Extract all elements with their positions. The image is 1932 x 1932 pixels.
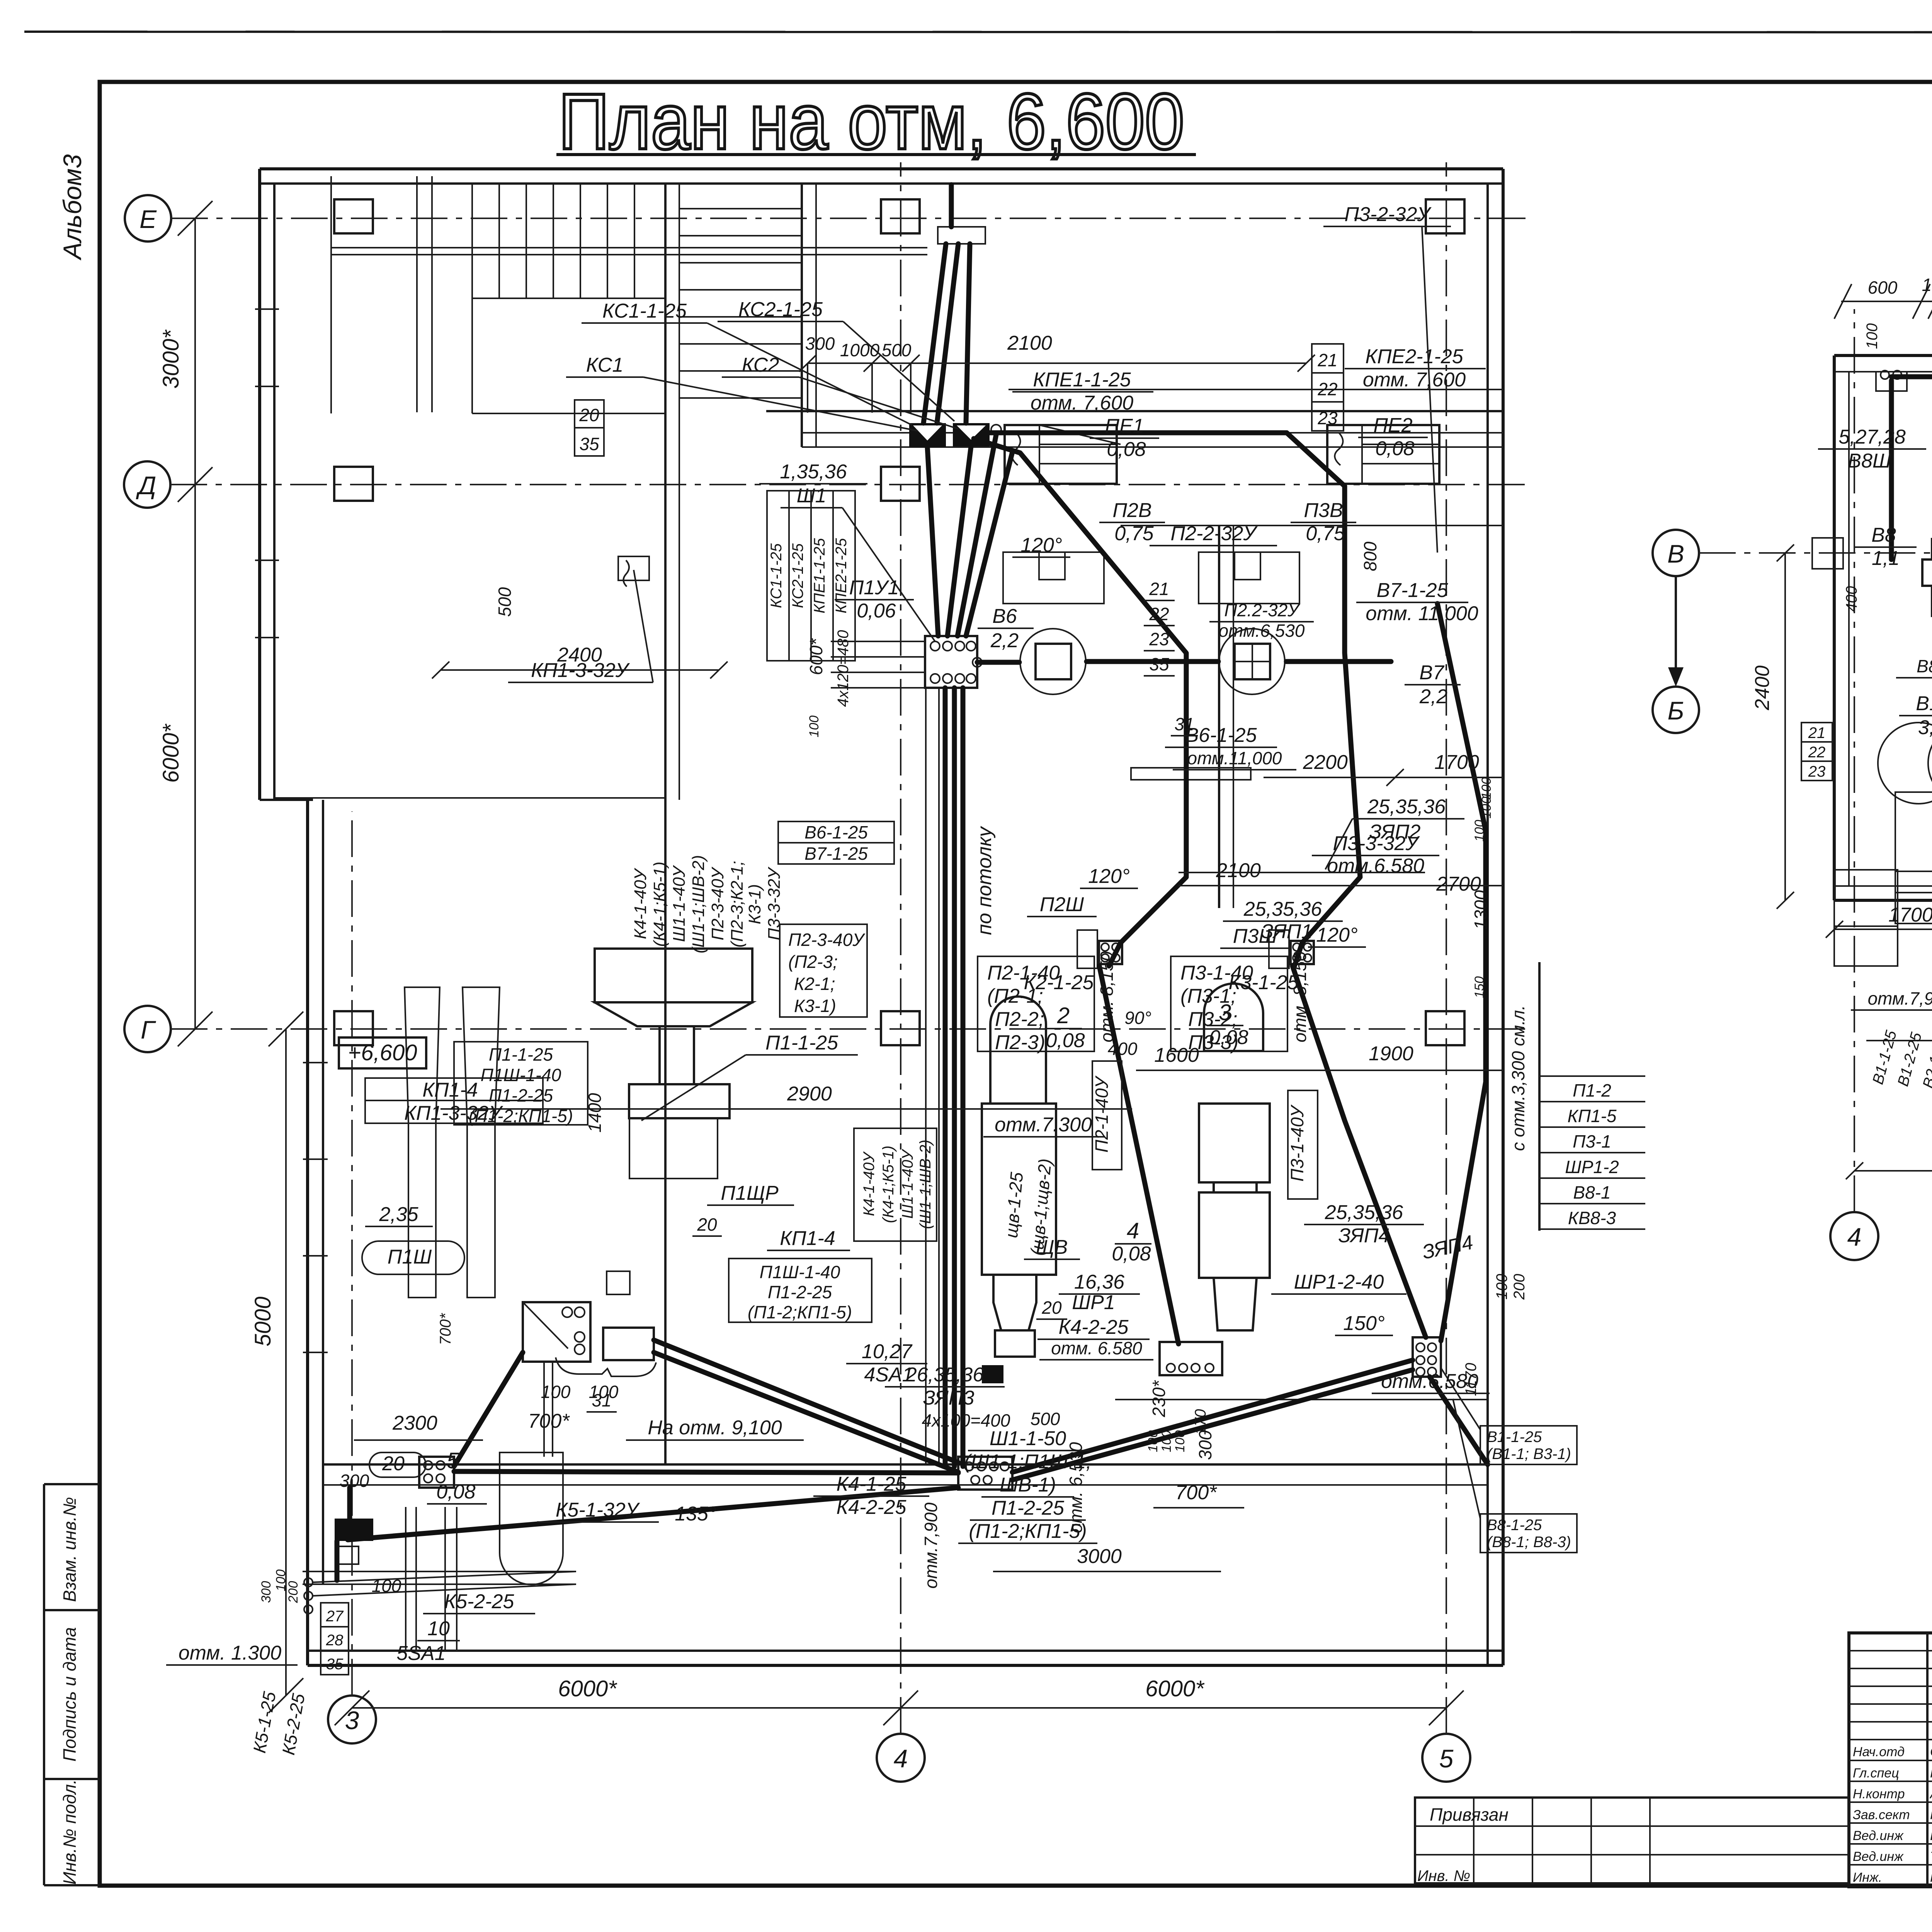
pump В1 circles bbox=[1878, 723, 1932, 804]
svg-text:Нач.отд: Нач.отд bbox=[1853, 1745, 1905, 1759]
stair treads bbox=[498, 184, 500, 298]
svg-text:В6-1-25: В6-1-25 bbox=[1185, 724, 1257, 747]
title block bbox=[1849, 1633, 1932, 1925]
svg-text:100: 100 bbox=[1159, 1430, 1174, 1452]
svg-text:П3-1-40У: П3-1-40У bbox=[1287, 1104, 1307, 1182]
dims top bbox=[1841, 301, 1932, 302]
svg-text:КП1-4: КП1-4 bbox=[780, 1227, 835, 1250]
fan В6 bbox=[1020, 629, 1086, 694]
bottom wall bbox=[308, 1664, 1503, 1667]
svg-text:Альбом3: Альбом3 bbox=[58, 154, 87, 261]
svg-text:отм.6.580: отм.6.580 bbox=[1327, 855, 1424, 877]
junction ШР1 bbox=[1160, 1342, 1222, 1375]
svg-text:Е: Е bbox=[139, 205, 157, 233]
ticks left of box bbox=[831, 641, 925, 642]
svg-text:500: 500 bbox=[1031, 1409, 1060, 1429]
svg-text:6000*: 6000* bbox=[1145, 1676, 1205, 1701]
svg-text:П2-1-40У: П2-1-40У bbox=[1092, 1075, 1112, 1153]
svg-text:28: 28 bbox=[326, 1632, 344, 1649]
svg-text:Инв.№ подл.: Инв.№ подл. bbox=[60, 1779, 80, 1885]
title block outline bbox=[1849, 1633, 1932, 1887]
rotated П3-1-40У bbox=[1288, 1090, 1318, 1199]
svg-text:П2Ш: П2Ш bbox=[1040, 893, 1084, 916]
svg-text:22: 22 bbox=[1317, 379, 1337, 399]
svg-text:с отм.3,300 см.л.: с отм.3,300 см.л. bbox=[1508, 1005, 1528, 1151]
left wall upper bbox=[258, 169, 261, 800]
svg-text:120°: 120° bbox=[1316, 924, 1358, 946]
damper circle bbox=[991, 425, 1001, 435]
svg-text:К2-1;: К2-1; bbox=[794, 974, 835, 994]
svg-text:П3-3-32У: П3-3-32У bbox=[765, 867, 784, 940]
svg-text:2,35: 2,35 bbox=[379, 1203, 418, 1226]
bottom dim 6000* line bbox=[352, 1707, 1446, 1709]
svg-text:В6: В6 bbox=[992, 605, 1017, 628]
junction ЗЯП3 bbox=[958, 1457, 1012, 1490]
svg-text:2,2: 2,2 bbox=[990, 629, 1019, 652]
svg-text:П1Ш-1-40: П1Ш-1-40 bbox=[760, 1262, 840, 1282]
cabinet КП1-4 bbox=[603, 1328, 654, 1360]
svg-text:отм.7,900: отм.7,900 bbox=[1868, 988, 1932, 1009]
svg-text:ПЕ2: ПЕ2 bbox=[1373, 414, 1412, 437]
svg-text:отм. 7,600: отм. 7,600 bbox=[1031, 392, 1133, 414]
column stub grid5-E bbox=[1426, 199, 1464, 233]
svg-text:(В8-1; В8-3): (В8-1; В8-3) bbox=[1487, 1534, 1571, 1551]
svg-text:Ш1-1-50: Ш1-1-50 bbox=[990, 1427, 1066, 1450]
svg-text:10: 10 bbox=[427, 1617, 450, 1640]
svg-text:П2-2-32У: П2-2-32У bbox=[1170, 522, 1258, 545]
svg-text:0,08: 0,08 bbox=[1046, 1029, 1085, 1052]
left wall step bbox=[260, 799, 313, 801]
svg-text:П2-3-40У: П2-3-40У bbox=[788, 930, 866, 950]
svg-text:700*: 700* bbox=[528, 1410, 570, 1432]
cable П3 machine drop bbox=[1293, 966, 1426, 1337]
svg-text:ЗЯП3: ЗЯП3 bbox=[923, 1387, 975, 1409]
attachment table bbox=[1415, 1798, 1849, 1884]
cable П3-2 right side run bbox=[1437, 604, 1486, 1341]
svg-text:1900: 1900 bbox=[1369, 1043, 1413, 1065]
block ПЕ2 bbox=[1327, 425, 1439, 484]
junction П2Ш bbox=[1077, 930, 1097, 968]
drawing title bbox=[556, 77, 1196, 166]
machine П2 body bbox=[982, 1104, 1056, 1275]
svg-text:4: 4 bbox=[894, 1744, 908, 1773]
svg-text:100: 100 bbox=[807, 716, 821, 738]
fan В7 bbox=[1219, 629, 1285, 694]
svg-text:200: 200 bbox=[286, 1581, 301, 1604]
svg-text:16,36: 16,36 bbox=[1074, 1271, 1124, 1293]
svg-text:100: 100 bbox=[1864, 323, 1881, 349]
cable drop from top wall bbox=[923, 244, 946, 423]
right wall bbox=[1502, 169, 1505, 1665]
svg-text:ЩВ: ЩВ bbox=[1036, 1236, 1068, 1259]
svg-text:КПЕ2-1-25: КПЕ2-1-25 bbox=[833, 538, 850, 614]
svg-text:1,1: 1,1 bbox=[1872, 547, 1900, 570]
dim 6000* vertical bbox=[194, 485, 196, 1029]
svg-text:отм.7.300: отм.7.300 bbox=[995, 1114, 1092, 1136]
svg-text:П2В: П2В bbox=[1112, 499, 1151, 522]
svg-text:21: 21 bbox=[1317, 350, 1337, 370]
box 21 22 23 top bbox=[1312, 344, 1344, 431]
cable riser fan to box bbox=[927, 447, 938, 636]
junction В8Ш top bbox=[1876, 372, 1907, 391]
svg-text:2: 2 bbox=[1057, 1003, 1070, 1028]
room П2В bbox=[1003, 552, 1104, 604]
axis line 3 bbox=[351, 811, 353, 1696]
svg-text:ЗЯП4: ЗЯП4 bbox=[1338, 1225, 1390, 1247]
axis В-Б arrow bbox=[1675, 576, 1677, 675]
box КС1-1-25 stack rotated bbox=[767, 491, 855, 661]
svg-text:(П2-3;: (П2-3; bbox=[788, 952, 838, 972]
oval 20-5 bbox=[369, 1452, 426, 1477]
svg-text:150: 150 bbox=[1472, 976, 1487, 998]
drop lines to corridor bbox=[543, 1362, 545, 1457]
svg-text:Толмачева: Толмачева bbox=[1930, 1849, 1932, 1864]
svg-text:2400: 2400 bbox=[1751, 665, 1774, 711]
svg-text:ШР1: ШР1 bbox=[1072, 1291, 1115, 1314]
svg-text:(П1-2;КП1-5): (П1-2;КП1-5) bbox=[469, 1106, 573, 1126]
svg-text:ШР1-2-40: ШР1-2-40 bbox=[1294, 1271, 1384, 1293]
svg-text:В8: В8 bbox=[1871, 524, 1896, 546]
svg-text:П1ЩР: П1ЩР bbox=[721, 1182, 779, 1204]
svg-text:135°: 135° bbox=[675, 1503, 716, 1525]
svg-text:отм.11,000: отм.11,000 bbox=[1187, 748, 1282, 768]
svg-text:700*: 700* bbox=[437, 1313, 454, 1345]
svg-text:100: 100 bbox=[1173, 1430, 1187, 1452]
right plan left wall bbox=[1833, 355, 1836, 900]
svg-text:КПЕ1-1-25: КПЕ1-1-25 bbox=[811, 538, 828, 614]
block ПЕ1 bbox=[1005, 425, 1117, 484]
tall shaft П1Ш b bbox=[463, 987, 500, 1298]
svg-text:КП1-4: КП1-4 bbox=[422, 1079, 478, 1101]
svg-text:5000: 5000 bbox=[250, 1296, 276, 1346]
cable В8 riser drop bbox=[1889, 381, 1894, 560]
svg-text:КПЕ2-1-25: КПЕ2-1-25 bbox=[1365, 345, 1463, 368]
svg-text:В: В bbox=[1667, 539, 1684, 568]
wall x857 bbox=[330, 176, 332, 413]
axis line Г bbox=[171, 1028, 1530, 1030]
svg-text:90°: 90° bbox=[1124, 1008, 1151, 1028]
svg-text:5SA1: 5SA1 bbox=[396, 1642, 446, 1665]
svg-text:В6-1-25: В6-1-25 bbox=[804, 822, 868, 842]
machine 5 body bbox=[500, 1452, 563, 1585]
dim 3000* vertical bbox=[194, 218, 196, 485]
svg-text:2,2: 2,2 bbox=[1419, 685, 1447, 708]
svg-text:0,75: 0,75 bbox=[1306, 522, 1345, 545]
box П1ЩР bbox=[607, 1271, 630, 1294]
svg-text:800: 800 bbox=[1360, 541, 1380, 571]
svg-text:4х100=400: 4х100=400 bbox=[922, 1410, 1010, 1430]
svg-text:25,35,36: 25,35,36 bbox=[1325, 1201, 1403, 1224]
junction box П1 bbox=[523, 1302, 590, 1362]
partition right rooms bbox=[1218, 526, 1220, 908]
svg-text:ШР1-2: ШР1-2 bbox=[1565, 1157, 1619, 1177]
svg-text:700*: 700* bbox=[1175, 1481, 1218, 1504]
cable diag П2 route bbox=[974, 439, 1186, 966]
svg-text:100: 100 bbox=[1479, 777, 1494, 799]
svg-text:0,08: 0,08 bbox=[1107, 438, 1146, 461]
svg-text:К4-2-25: К4-2-25 bbox=[837, 1496, 907, 1519]
svg-text:100: 100 bbox=[1479, 797, 1494, 819]
axis line 4 bbox=[900, 162, 901, 1734]
svg-text:Рябишин: Рябишин bbox=[1930, 1766, 1932, 1781]
svg-text:К4-1-40У: К4-1-40У bbox=[861, 1151, 878, 1216]
svg-text:П3В: П3В bbox=[1304, 499, 1343, 522]
svg-text:К5-2-25: К5-2-25 bbox=[444, 1590, 515, 1613]
stair flight 2 treads bbox=[679, 208, 802, 209]
signature table small rows bbox=[1849, 1650, 1932, 1651]
svg-text:КВ8-3: КВ8-3 bbox=[1568, 1208, 1616, 1228]
svg-text:100: 100 bbox=[1493, 1274, 1510, 1300]
svg-text:300: 300 bbox=[805, 333, 835, 354]
svg-text:3: 3 bbox=[345, 1706, 359, 1735]
svg-text:П2.2-32У: П2.2-32У bbox=[1224, 600, 1301, 620]
svg-text:0,06: 0,06 bbox=[857, 600, 896, 622]
svg-text:П1-1-25: П1-1-25 bbox=[765, 1032, 838, 1054]
name rows bbox=[1849, 1760, 1932, 1761]
svg-text:27: 27 bbox=[326, 1608, 344, 1625]
svg-text:35: 35 bbox=[326, 1656, 344, 1673]
axis circle 5 bbox=[1422, 1734, 1470, 1782]
svg-text:ШВ-1): ШВ-1) bbox=[1000, 1474, 1056, 1496]
svg-text:400: 400 bbox=[1843, 586, 1860, 612]
svg-text:КС2: КС2 bbox=[742, 354, 779, 376]
label В1-1-25 box bottom bbox=[1441, 777, 1577, 1553]
svg-text:3000: 3000 bbox=[1077, 1545, 1122, 1568]
label 21 22 23 stack bbox=[1801, 723, 1832, 781]
rotated box К4-1-40У bbox=[854, 1128, 937, 1241]
svg-text:КПЕ1-1-25: КПЕ1-1-25 bbox=[1033, 369, 1131, 391]
device П1У1 bbox=[618, 556, 649, 580]
svg-text:22: 22 bbox=[1808, 744, 1826, 761]
svg-text:120°: 120° bbox=[1088, 865, 1130, 888]
column stub grid5-G bbox=[1426, 1011, 1464, 1045]
svg-text:Г: Г bbox=[141, 1015, 156, 1044]
leader ЗЯП4 to boxes bbox=[1441, 1368, 1480, 1430]
corner stack 27 28 35 bbox=[321, 1603, 349, 1675]
black box near ЗЯП3 bbox=[982, 1365, 1003, 1383]
pump В1 body bbox=[1895, 792, 1932, 893]
svg-text:П2-3): П2-3) bbox=[995, 1031, 1045, 1054]
cable ЗЯП4 exit bbox=[1430, 1377, 1488, 1464]
svg-text:(Ш1-1;ШВ-2): (Ш1-1;ШВ-2) bbox=[689, 855, 708, 954]
svg-text:отм. 8,150: отм. 8,150 bbox=[1097, 951, 1117, 1043]
svg-text:25,35,36: 25,35,36 bbox=[1243, 898, 1322, 920]
room line y2065 bbox=[274, 797, 665, 799]
svg-text:3000*: 3000* bbox=[158, 329, 184, 389]
wall opening ticks bbox=[255, 308, 279, 310]
svg-text:6000*: 6000* bbox=[558, 1676, 617, 1701]
box В6-1-25 В7-1-25 bbox=[778, 821, 894, 864]
rotated П2-1-40У bbox=[1092, 1061, 1122, 1170]
svg-text:2400: 2400 bbox=[557, 644, 602, 666]
svg-text:23: 23 bbox=[1149, 629, 1169, 649]
machine П2 dome bbox=[990, 997, 1046, 1104]
svg-text:(П1-2;КП1-5): (П1-2;КП1-5) bbox=[969, 1520, 1087, 1543]
svg-text:К4-1-25: К4-1-25 bbox=[837, 1473, 907, 1495]
svg-text:5,27,28: 5,27,28 bbox=[1838, 426, 1906, 448]
svg-text:отм.6,530: отм.6,530 bbox=[1219, 621, 1305, 641]
svg-text:200: 200 bbox=[1511, 1274, 1528, 1300]
svg-text:6000*: 6000* bbox=[158, 723, 184, 783]
svg-text:П1-2: П1-2 bbox=[1573, 1080, 1611, 1100]
svg-text:отм.7,900: отм.7,900 bbox=[921, 1502, 941, 1588]
left margin boxes bbox=[44, 1484, 100, 1885]
bottom edge with break bbox=[1866, 1035, 1932, 1044]
svg-text:П1Ш: П1Ш bbox=[388, 1246, 432, 1268]
svg-text:1000: 1000 bbox=[840, 340, 880, 360]
svg-text:Д: Д bbox=[136, 471, 156, 500]
svg-text:по потолку: по потолку bbox=[973, 826, 996, 935]
machine П1М1 bbox=[595, 949, 752, 1002]
cable riser box top bbox=[938, 227, 985, 244]
svg-text:35: 35 bbox=[579, 434, 599, 454]
corridor verticals center bbox=[925, 688, 927, 1464]
svg-text:100: 100 bbox=[372, 1576, 401, 1596]
svg-text:300: 300 bbox=[340, 1471, 369, 1491]
svg-text:Гл.спец: Гл.спец bbox=[1853, 1766, 1899, 1781]
cable to fans В6 В7 bbox=[977, 660, 1019, 665]
svg-text:0,08: 0,08 bbox=[436, 1481, 475, 1503]
junction box Ш1 bbox=[925, 636, 977, 688]
svg-text:+6,600: +6,600 bbox=[348, 1040, 417, 1065]
svg-text:(П2-3;К2-1;: (П2-3;К2-1; bbox=[728, 861, 747, 947]
axis line В bbox=[1699, 552, 1932, 554]
svg-text:500: 500 bbox=[882, 340, 912, 360]
column stub grid3-D bbox=[334, 467, 373, 501]
vent box black 1 bbox=[909, 423, 946, 447]
svg-text:1300: 1300 bbox=[1471, 890, 1491, 930]
svg-text:отм. 6.580: отм. 6.580 bbox=[1051, 1338, 1142, 1358]
svg-text:Соколовский: Соколовский bbox=[1930, 1745, 1932, 1759]
svg-text:23: 23 bbox=[1808, 763, 1826, 780]
svg-text:В7-1-25: В7-1-25 bbox=[1377, 579, 1449, 602]
svg-text:П1-1-25: П1-1-25 bbox=[489, 1044, 553, 1065]
svg-text:Глазырина: Глазырина bbox=[1930, 1870, 1932, 1885]
axis circle Е bbox=[125, 195, 171, 241]
svg-text:П3-2-32У: П3-2-32У bbox=[1344, 203, 1432, 226]
fan В8 bbox=[1922, 560, 1932, 586]
corridor wall pair bbox=[416, 176, 418, 412]
column stub grid3-E bbox=[334, 199, 373, 233]
svg-text:В1: В1 bbox=[1916, 692, 1932, 715]
vent box black 2 bbox=[953, 423, 990, 446]
cable bundle corridor vertical bbox=[943, 688, 948, 1464]
svg-text:Б: Б bbox=[1668, 696, 1684, 725]
box П2-1-40 bbox=[978, 956, 1094, 1051]
svg-text:100: 100 bbox=[1146, 1430, 1160, 1452]
svg-text:КС2-1-25: КС2-1-25 bbox=[789, 543, 806, 608]
svg-text:На отм. 9,100: На отм. 9,100 bbox=[648, 1417, 782, 1439]
svg-text:КС1-1-25: КС1-1-25 bbox=[602, 300, 687, 322]
svg-text:П1-2-25: П1-2-25 bbox=[768, 1282, 832, 1302]
svg-text:(К4-1;К5-1): (К4-1;К5-1) bbox=[650, 862, 669, 947]
svg-text:К4-1-40У: К4-1-40У bbox=[631, 868, 650, 939]
bottom dim 6000 bbox=[1854, 1170, 1932, 1172]
svg-text:отм. 1.300: отм. 1.300 bbox=[179, 1642, 281, 1664]
svg-text:П2-2;: П2-2; bbox=[995, 1008, 1044, 1031]
corner junction bottom-left bbox=[335, 1519, 373, 1541]
axis В stub left bbox=[1812, 538, 1843, 569]
label ВВ-1-25 box bottom bbox=[1480, 1514, 1577, 1553]
svg-text:Ш1-1-40У: Ш1-1-40У bbox=[899, 1149, 916, 1219]
svg-text:300: 300 bbox=[1195, 1430, 1215, 1460]
svg-text:К3-1-25: К3-1-25 bbox=[1229, 971, 1299, 994]
svg-text:Взам. инв.№: Взам. инв.№ bbox=[60, 1497, 80, 1602]
svg-text:Ш1-1-40У: Ш1-1-40У bbox=[670, 865, 689, 942]
svg-text:300: 300 bbox=[259, 1581, 274, 1603]
oval П1Ш bbox=[362, 1241, 464, 1274]
svg-text:В1-1-25: В1-1-25 bbox=[1487, 1429, 1542, 1446]
svg-text:4: 4 bbox=[1127, 1218, 1139, 1243]
svg-text:0,08: 0,08 bbox=[1112, 1243, 1151, 1265]
svg-text:0,08: 0,08 bbox=[1375, 437, 1414, 460]
svg-text:Вед.инж: Вед.инж bbox=[1853, 1849, 1904, 1864]
svg-text:600: 600 bbox=[1868, 277, 1898, 298]
svg-text:100: 100 bbox=[589, 1382, 619, 1402]
column stub grid4-E bbox=[881, 199, 920, 233]
svg-text:35: 35 bbox=[1149, 654, 1169, 674]
axis circle Б bbox=[1653, 687, 1699, 733]
svg-text:2100: 2100 bbox=[1216, 859, 1261, 882]
svg-text:23: 23 bbox=[1317, 408, 1338, 428]
svg-text:отм. 8,150: отм. 8,150 bbox=[1290, 951, 1310, 1043]
right plan top wall bbox=[1834, 354, 1932, 357]
axis circle Г bbox=[124, 1006, 171, 1052]
svg-text:К2-1-25: К2-1-25 bbox=[1024, 971, 1094, 994]
svg-text:(Ш1-1;ШВ-2): (Ш1-1;ШВ-2) bbox=[917, 1139, 934, 1229]
corridor south wall lines bbox=[323, 1463, 1488, 1466]
margin box column bbox=[43, 1484, 45, 1885]
svg-text:КП1-5: КП1-5 bbox=[1568, 1106, 1617, 1126]
svg-text:500: 500 bbox=[495, 587, 515, 617]
svg-text:1700: 1700 bbox=[1888, 904, 1932, 926]
svg-text:Инж.: Инж. bbox=[1853, 1870, 1882, 1885]
bottom dims bbox=[1834, 929, 1932, 930]
axis line Д bbox=[170, 484, 1530, 485]
svg-text:План на отм, 6,600: План на отм, 6,600 bbox=[558, 77, 1184, 166]
svg-text:К3-1): К3-1) bbox=[745, 884, 764, 924]
svg-text:20: 20 bbox=[1041, 1298, 1062, 1318]
svg-text:П1Ш-1-40: П1Ш-1-40 bbox=[481, 1065, 561, 1085]
svg-text:отм. 7,600: отм. 7,600 bbox=[1363, 369, 1466, 391]
tall shaft П1Ш a bbox=[405, 987, 440, 1298]
axis line Е bbox=[171, 218, 1530, 219]
svg-text:5: 5 bbox=[447, 1448, 459, 1473]
column stub grid3-G bbox=[334, 1011, 373, 1045]
axis line 5 bbox=[1446, 162, 1447, 1734]
room П3В bbox=[1199, 552, 1299, 604]
svg-text:отм. 11.000: отм. 11.000 bbox=[1366, 602, 1478, 625]
svg-text:П2-3-40У: П2-3-40У bbox=[708, 867, 727, 940]
bottom inner lines bbox=[303, 1571, 576, 1572]
bottom jamb lines bbox=[405, 1507, 406, 1651]
svg-text:20: 20 bbox=[697, 1214, 717, 1235]
axis circle 4R bbox=[1830, 1212, 1878, 1260]
svg-text:10,27: 10,27 bbox=[862, 1340, 913, 1363]
axis line 4R bbox=[1854, 309, 1855, 1212]
svg-text:(В1-1; В3-1): (В1-1; В3-1) bbox=[1487, 1446, 1571, 1463]
svg-text:В8Ш: В8Ш bbox=[1848, 450, 1891, 472]
axis circle 4 bbox=[877, 1734, 925, 1782]
stair outline bbox=[471, 184, 473, 413]
svg-text:22: 22 bbox=[1149, 604, 1169, 624]
beam line upper rooms bbox=[766, 410, 1503, 412]
svg-text:В7-1-25: В7-1-25 bbox=[804, 844, 868, 864]
box П1Ш-1-40 mid bbox=[729, 1259, 872, 1322]
stair shaft walls bbox=[664, 184, 667, 1464]
signature table verticals bbox=[1926, 1633, 1929, 1887]
svg-text:Выгалова: Выгалова bbox=[1930, 1828, 1932, 1843]
